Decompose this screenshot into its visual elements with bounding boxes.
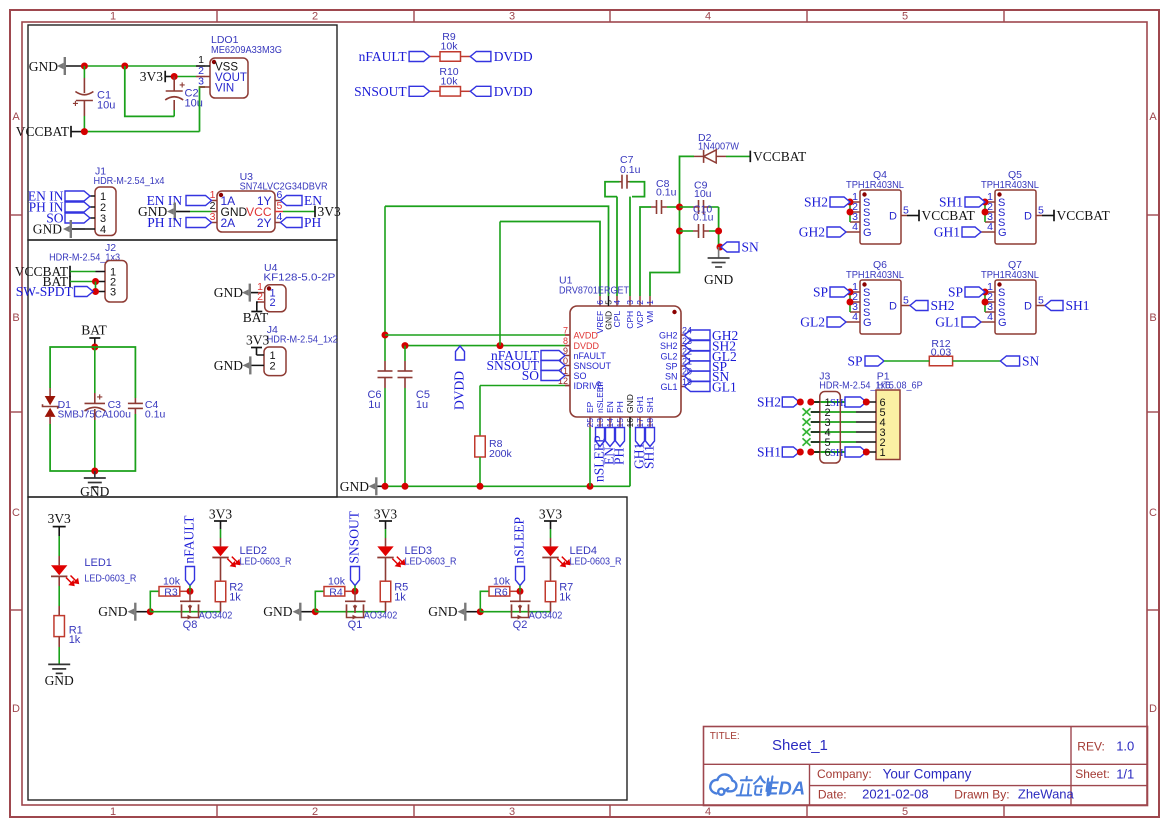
svg-text:1u: 1u bbox=[368, 399, 380, 411]
svg-text:13: 13 bbox=[595, 418, 605, 428]
svg-text:Sheet_1: Sheet_1 bbox=[772, 737, 828, 754]
svg-text:SH2: SH2 bbox=[931, 298, 955, 313]
svg-text:PH IN: PH IN bbox=[147, 215, 182, 230]
wire GND to LDO pin1 bbox=[66, 65, 84, 67]
resistor R6 bbox=[480, 591, 489, 611]
svg-text:GND: GND bbox=[704, 272, 733, 287]
wire AVDD to U1 pin7 bbox=[385, 334, 565, 336]
regulator LDO1 body bbox=[210, 58, 248, 98]
port PH IN at U3 pin3 bbox=[186, 218, 212, 228]
svg-text:KF128-5.0-2P: KF128-5.0-2P bbox=[263, 272, 335, 284]
svg-text:25: 25 bbox=[585, 418, 595, 428]
Q5 pin stubs bbox=[985, 201, 995, 203]
terminal P1 body bbox=[876, 390, 900, 460]
svg-text:+: + bbox=[72, 99, 78, 110]
svg-text:REV:: REV: bbox=[1077, 740, 1105, 754]
Q6 drain connection bbox=[901, 305, 910, 307]
net flag GND at U4 pin1 bbox=[249, 284, 251, 302]
svg-text:GH2: GH2 bbox=[659, 331, 678, 341]
connector J3 body bbox=[820, 392, 841, 464]
port SH2 at Q4 pin1 bbox=[830, 197, 850, 207]
svg-text:5: 5 bbox=[1038, 295, 1044, 307]
svg-text:GND: GND bbox=[98, 604, 127, 619]
resistor R8 bbox=[475, 436, 486, 457]
svg-text:G: G bbox=[998, 317, 1007, 329]
junction C10 left bbox=[676, 228, 683, 235]
frame row ticks right bbox=[1147, 214, 1159, 216]
svg-text:D: D bbox=[1149, 703, 1157, 715]
svg-text:nFAULT: nFAULT bbox=[182, 515, 197, 564]
svg-text:7: 7 bbox=[563, 326, 568, 336]
svg-text:SNSOUT: SNSOUT bbox=[574, 361, 612, 371]
port GH1 below U1 bbox=[636, 428, 645, 447]
svg-text:4: 4 bbox=[987, 221, 993, 233]
port SO at U1 pin11 bbox=[541, 371, 565, 381]
wire VREF down to DVDD bbox=[499, 222, 501, 346]
svg-text:SH2: SH2 bbox=[757, 395, 781, 410]
port DVDD at R10 bbox=[470, 86, 491, 96]
svg-text:10u: 10u bbox=[97, 100, 115, 112]
wire D2 to VCCBAT bbox=[726, 155, 750, 157]
capacitor C4 bbox=[134, 398, 136, 403]
ports at U1 right pins bbox=[685, 330, 711, 340]
svg-text:2: 2 bbox=[270, 360, 276, 372]
junction GND Q2 bbox=[477, 608, 484, 615]
transistor Q7 body bbox=[995, 280, 1036, 334]
section box power supply bbox=[28, 25, 337, 240]
svg-text:R4: R4 bbox=[329, 586, 343, 598]
svg-text:D: D bbox=[889, 301, 897, 313]
svg-text:1/1: 1/1 bbox=[1116, 767, 1134, 782]
port PH IN at J1 pin2 bbox=[65, 202, 90, 212]
ground symbol below R1 bbox=[48, 663, 70, 665]
port DVDD at R9 bbox=[470, 52, 491, 62]
net flag GND at J1 pin4 bbox=[70, 220, 72, 238]
svg-text:5: 5 bbox=[903, 295, 909, 307]
svg-text:23: 23 bbox=[682, 336, 692, 346]
wire SN vertical bbox=[718, 207, 720, 247]
wire IDRIVE to R8 bbox=[480, 385, 565, 387]
svg-text:2: 2 bbox=[270, 297, 276, 309]
svg-text:nSLEEP: nSLEEP bbox=[595, 381, 605, 413]
junction gate Q1 bbox=[352, 588, 359, 595]
svg-text:GL1: GL1 bbox=[712, 380, 737, 395]
svg-text:2Y: 2Y bbox=[257, 216, 272, 230]
resistor R10 bbox=[440, 87, 461, 97]
svg-text:LED-0603_R: LED-0603_R bbox=[570, 556, 622, 568]
svg-text:1.0: 1.0 bbox=[1116, 739, 1134, 754]
svg-text:3V3: 3V3 bbox=[374, 506, 397, 521]
svg-text:DVDD: DVDD bbox=[494, 49, 533, 64]
svg-text:SP: SP bbox=[665, 362, 677, 372]
svg-text:ME6209A33M3G: ME6209A33M3G bbox=[211, 44, 282, 56]
frame row ticks left bbox=[10, 214, 22, 216]
svg-text:SNSOUT: SNSOUT bbox=[347, 510, 362, 563]
svg-text:GL2: GL2 bbox=[660, 352, 677, 362]
svg-text:GND: GND bbox=[263, 604, 292, 619]
junction gate Q2 bbox=[517, 588, 524, 595]
svg-text:GL1: GL1 bbox=[660, 382, 677, 392]
svg-text:10u: 10u bbox=[694, 188, 712, 200]
svg-text:LED-0603_R: LED-0603_R bbox=[84, 573, 136, 585]
Q4 drain connection bbox=[901, 215, 907, 217]
svg-text:A: A bbox=[1149, 111, 1157, 123]
capacitor C6 bbox=[384, 361, 386, 371]
capacitor C2 bbox=[173, 77, 175, 91]
capacitor C3 bbox=[94, 347, 96, 393]
svg-text:15: 15 bbox=[615, 418, 625, 428]
wire GND down to C2 bottom bbox=[125, 66, 174, 116]
svg-text:SH2: SH2 bbox=[660, 341, 678, 351]
svg-text:SH1: SH1 bbox=[642, 445, 657, 469]
port SW-SPDT at J2 pin3 bbox=[75, 287, 94, 297]
Q4 pin stubs bbox=[850, 201, 860, 203]
net flag VCCBAT at D2 bbox=[749, 151, 751, 163]
svg-text:SN: SN bbox=[665, 372, 678, 382]
net flag GND at bottom rail bbox=[375, 477, 377, 495]
U1 right pin stubs bbox=[681, 334, 685, 336]
junction SN node bbox=[717, 244, 724, 251]
net flag GND at Q8 bbox=[134, 603, 136, 621]
svg-text:PH: PH bbox=[304, 215, 322, 230]
wire 3V3 to LDO pin2 bbox=[165, 76, 174, 78]
svg-text:1: 1 bbox=[645, 300, 655, 305]
junction J2 pin2 bbox=[92, 278, 99, 285]
junction DVDD-VREF bbox=[497, 342, 504, 349]
svg-text:SH1: SH1 bbox=[757, 445, 781, 460]
svg-text:GND: GND bbox=[214, 358, 243, 373]
svg-text:10k: 10k bbox=[441, 41, 459, 53]
port EN IN at J1 pin1 bbox=[65, 191, 90, 201]
svg-text:3V3: 3V3 bbox=[209, 506, 232, 521]
svg-text:4: 4 bbox=[852, 311, 858, 323]
svg-text:VCCBAT: VCCBAT bbox=[922, 208, 976, 223]
port EN at U3 pin6 bbox=[281, 196, 303, 206]
svg-text:5: 5 bbox=[902, 806, 908, 818]
svg-text:2: 2 bbox=[312, 806, 318, 818]
svg-text:Drawn By:: Drawn By: bbox=[954, 788, 1009, 802]
junction GND Q8 bbox=[147, 608, 154, 615]
buffer U3 body bbox=[217, 191, 275, 232]
junction at C2 top bbox=[171, 73, 178, 80]
resistor R4 bbox=[315, 591, 324, 611]
svg-text:D: D bbox=[889, 211, 897, 223]
Q6 pin stubs bbox=[850, 291, 860, 293]
svg-text:SO: SO bbox=[574, 371, 587, 381]
svg-text:14: 14 bbox=[605, 418, 615, 428]
svg-text:SNSOUT: SNSOUT bbox=[354, 84, 407, 99]
svg-text:8: 8 bbox=[563, 336, 568, 346]
junction C5 at rail bbox=[402, 483, 409, 490]
svg-text:VCCBAT: VCCBAT bbox=[753, 149, 807, 164]
svg-text:Company:: Company: bbox=[817, 767, 872, 781]
svg-text:R3: R3 bbox=[164, 586, 178, 598]
svg-text:Sheet:: Sheet: bbox=[1075, 767, 1110, 781]
junction C10 right bbox=[715, 228, 722, 235]
net flag 3V3 at U3 pin5 bbox=[283, 211, 315, 213]
svg-text:AO3402: AO3402 bbox=[364, 610, 398, 622]
svg-text:VCP: VCP bbox=[635, 310, 645, 328]
svg-text:4: 4 bbox=[705, 806, 711, 818]
terminal U4 body bbox=[265, 285, 286, 312]
wire AVDD-C6 top run bbox=[385, 206, 609, 296]
svg-text:GL1: GL1 bbox=[935, 315, 960, 330]
port SO at J1 pin3 bbox=[65, 213, 90, 223]
transistor Q4 body bbox=[860, 190, 901, 244]
svg-text:3V3: 3V3 bbox=[246, 333, 269, 348]
port GL1 at Q7 pin4 bbox=[962, 317, 981, 327]
resistor R1 bbox=[54, 616, 64, 637]
svg-text:C: C bbox=[12, 507, 20, 519]
LED LED1 bbox=[58, 527, 60, 536]
logo text 立创EDA bbox=[737, 776, 773, 795]
wire EP to rail bbox=[589, 428, 591, 487]
svg-text:EP: EP bbox=[585, 401, 595, 413]
svg-text:D: D bbox=[1024, 301, 1032, 313]
transistor Q6 body bbox=[860, 280, 901, 334]
wire CPL riser bbox=[616, 197, 618, 296]
Q5 source tie wire bbox=[984, 202, 986, 222]
net flag GND at Q2 bbox=[464, 603, 466, 621]
svg-text:24: 24 bbox=[682, 326, 692, 336]
TVS diode D1 bbox=[49, 388, 51, 396]
resistor R5 bbox=[380, 581, 391, 602]
resistor R3 bbox=[150, 591, 159, 611]
junction DVDD left bbox=[402, 342, 409, 349]
port SP at R12 bbox=[865, 356, 884, 366]
svg-text:SP: SP bbox=[813, 285, 828, 300]
logo LCEDA cloud bbox=[710, 774, 736, 794]
junction J2 pin3 bbox=[92, 288, 99, 295]
J1 pin stubs bbox=[85, 195, 95, 197]
port SH1 below U1 bbox=[646, 428, 655, 447]
svg-text:DVDD: DVDD bbox=[452, 371, 467, 410]
svg-text:SO: SO bbox=[522, 368, 540, 383]
svg-text:3: 3 bbox=[509, 806, 515, 818]
svg-text:GND: GND bbox=[214, 285, 243, 300]
svg-text:C: C bbox=[1149, 507, 1157, 519]
wire SP to R12 bbox=[884, 360, 929, 362]
port nSLEEP below U1 bbox=[596, 428, 605, 447]
LED LED2 bbox=[220, 521, 222, 529]
svg-text:AO3402: AO3402 bbox=[529, 610, 563, 622]
svg-text:GND: GND bbox=[29, 59, 58, 74]
title block dividers bbox=[1070, 727, 1072, 806]
svg-text:GND: GND bbox=[45, 673, 74, 688]
U1 left pin stubs bbox=[565, 334, 570, 336]
port nFAULT at R9 bbox=[409, 52, 430, 62]
U1 bottom pin stubs bbox=[589, 417, 591, 428]
port GH1 at Q5 pin4 bbox=[962, 227, 981, 237]
svg-text:EN: EN bbox=[605, 401, 615, 413]
svg-text:Q1: Q1 bbox=[348, 619, 363, 631]
port nFAULT vertical at Q8 bbox=[186, 567, 195, 586]
svg-text:GL2: GL2 bbox=[800, 315, 825, 330]
U3 right pin stubs bbox=[275, 200, 281, 202]
svg-text:4: 4 bbox=[852, 221, 858, 233]
svg-text:GH2: GH2 bbox=[799, 225, 825, 240]
J2 pin stubs bbox=[96, 271, 106, 273]
port EN IN at U3 pin1 bbox=[186, 196, 212, 206]
port PH below U1 bbox=[616, 428, 625, 447]
svg-text:PH: PH bbox=[615, 401, 625, 413]
svg-text:GND: GND bbox=[80, 484, 109, 499]
transistor Q5 body bbox=[995, 190, 1036, 244]
wire rail up to U1 GND pin bbox=[629, 427, 631, 486]
svg-text:AO3402: AO3402 bbox=[199, 610, 233, 622]
resistor R9 bbox=[440, 52, 461, 62]
junction gate Q8 bbox=[187, 588, 194, 595]
title block border bbox=[704, 727, 1148, 806]
svg-text:BAT: BAT bbox=[81, 323, 107, 338]
svg-text:19: 19 bbox=[682, 377, 692, 387]
svg-text:20: 20 bbox=[682, 367, 692, 377]
svg-text:0.1u: 0.1u bbox=[693, 212, 714, 224]
svg-text:21: 21 bbox=[682, 357, 692, 367]
junction BAT at loop top bbox=[91, 344, 98, 351]
net flag VCCBAT at J2 pin1 bbox=[69, 266, 71, 278]
svg-text:1: 1 bbox=[110, 806, 116, 818]
svg-text:1k: 1k bbox=[559, 592, 571, 604]
svg-text:SMBJ75CA: SMBJ75CA bbox=[58, 409, 109, 421]
wire R12 to SN bbox=[953, 360, 1001, 362]
Q4 source tie wire bbox=[849, 202, 851, 222]
svg-text:1: 1 bbox=[880, 447, 886, 459]
ground symbol below SN bbox=[718, 247, 720, 258]
svg-text:ZheWana: ZheWana bbox=[1018, 787, 1075, 802]
svg-text:VM: VM bbox=[645, 311, 655, 324]
junction at C1 bottom bbox=[81, 128, 88, 135]
svg-text:GND: GND bbox=[33, 222, 62, 237]
svg-text:3V3: 3V3 bbox=[539, 506, 562, 521]
junction R8 at rail bbox=[477, 483, 484, 490]
no-connect marks on J3 pins 2-5 bbox=[803, 408, 811, 415]
wire GND rail bbox=[378, 485, 383, 487]
svg-text:nFAULT: nFAULT bbox=[574, 351, 607, 361]
port GL2 at Q6 pin4 bbox=[827, 317, 846, 327]
net flag BAT at J2 pin2 bbox=[69, 276, 71, 288]
svg-text:4: 4 bbox=[705, 11, 711, 23]
U3 left pin stubs bbox=[212, 200, 218, 202]
section box LED indicators bbox=[28, 497, 627, 800]
svg-text:TITLE:: TITLE: bbox=[710, 731, 740, 742]
svg-text:G: G bbox=[863, 227, 872, 239]
wire GND rail Q1 bbox=[315, 611, 385, 613]
port SNSOUT at U1 pin10 bbox=[541, 361, 565, 371]
section box connectors bbox=[28, 240, 337, 497]
svg-text:10k: 10k bbox=[441, 75, 459, 87]
resistor R7 bbox=[545, 581, 556, 602]
svg-text:2: 2 bbox=[312, 11, 318, 23]
svg-text:VIN: VIN bbox=[215, 83, 234, 95]
port SNSOUT at R10 bbox=[409, 86, 430, 96]
svg-text:GH1: GH1 bbox=[635, 395, 645, 413]
driver U1 body bbox=[570, 306, 681, 417]
junction at GND branch to C2 bbox=[121, 63, 128, 70]
junction C8-C9 node bbox=[676, 204, 683, 211]
svg-text:18: 18 bbox=[645, 418, 655, 428]
svg-text:3: 3 bbox=[198, 76, 204, 88]
svg-text:17: 17 bbox=[635, 418, 645, 428]
transistor Q1 bbox=[354, 591, 356, 601]
svg-text:0.1u: 0.1u bbox=[656, 187, 677, 199]
transistor Q8 bbox=[189, 591, 191, 601]
svg-text:Your Company: Your Company bbox=[883, 767, 972, 782]
svg-text:1: 1 bbox=[110, 11, 116, 23]
port SNSOUT vertical at Q1 bbox=[351, 567, 360, 586]
svg-text:5: 5 bbox=[902, 11, 908, 23]
Q5 drain connection bbox=[1036, 215, 1042, 217]
svg-text:3: 3 bbox=[509, 11, 515, 23]
net flag 3V3 at LDO bbox=[164, 71, 166, 83]
port nSLEEP vertical at Q2 bbox=[516, 567, 525, 586]
row wires J3 to P1 bbox=[811, 401, 856, 403]
connector J4 body bbox=[264, 347, 286, 376]
Q7 pin stubs bbox=[985, 291, 995, 293]
junction GND Q1 bbox=[312, 608, 319, 615]
net flag VCCBAT at LDO bbox=[70, 126, 72, 138]
wire J2 pin2 to pin3 bbox=[95, 282, 97, 292]
LDO1 pin stubs bbox=[205, 65, 210, 67]
port nFAULT at U1 pin9 bbox=[541, 351, 565, 361]
transistor Q2 bbox=[519, 591, 521, 601]
svg-text:D: D bbox=[1024, 211, 1032, 223]
U4 pin stubs bbox=[258, 292, 265, 294]
net flag BAT at U4 pin2 bbox=[257, 302, 258, 312]
svg-text:VCCBAT: VCCBAT bbox=[1057, 208, 1111, 223]
svg-text:G: G bbox=[863, 317, 872, 329]
svg-text:0.1u: 0.1u bbox=[145, 409, 166, 421]
svg-text:2021-02-08: 2021-02-08 bbox=[862, 787, 929, 802]
net flag GND at LDO bbox=[64, 57, 66, 75]
port EN below U1 bbox=[606, 428, 615, 447]
wire VM riser bbox=[650, 156, 694, 296]
frame column ticks bottom bbox=[216, 805, 218, 817]
svg-text:nSLEEP: nSLEEP bbox=[512, 517, 527, 564]
svg-text:nFAULT: nFAULT bbox=[359, 49, 408, 64]
LED LED2 bbox=[385, 521, 387, 529]
resistor R2 bbox=[215, 581, 226, 602]
svg-text:2: 2 bbox=[635, 300, 645, 305]
net flag GND at Q1 bbox=[299, 603, 301, 621]
ground symbol below battery loop bbox=[94, 471, 96, 478]
svg-text:SW-SPDT: SW-SPDT bbox=[16, 284, 74, 299]
junction AVDD tap bbox=[382, 332, 389, 339]
wire GND rail Q8 bbox=[150, 611, 220, 613]
svg-text:GND: GND bbox=[340, 479, 369, 494]
svg-text:SH2: SH2 bbox=[804, 195, 828, 210]
capacitor C5 bbox=[404, 346, 406, 361]
port SP at Q7 pin1 bbox=[965, 287, 985, 297]
wire VCCBAT to LDO pin3 bbox=[71, 131, 84, 133]
svg-text:DVDD: DVDD bbox=[494, 84, 533, 99]
svg-text:SH1: SH1 bbox=[1066, 298, 1090, 313]
connector J1 body bbox=[95, 187, 116, 236]
svg-text:GH1: GH1 bbox=[934, 225, 960, 240]
svg-text:1k: 1k bbox=[394, 592, 406, 604]
svg-text:3: 3 bbox=[110, 287, 116, 299]
svg-text:EDA: EDA bbox=[766, 778, 805, 799]
connector J2 body bbox=[105, 261, 127, 303]
junction C6 at rail bbox=[382, 483, 389, 490]
svg-text:LED-0603_R: LED-0603_R bbox=[405, 556, 457, 568]
junction EP at rail bbox=[587, 483, 594, 490]
wire VCP riser bbox=[640, 207, 651, 296]
svg-text:DVDD: DVDD bbox=[574, 341, 600, 351]
port SN at R12 bbox=[1000, 356, 1019, 366]
wire C6 vertical bbox=[384, 206, 386, 361]
svg-text:PH: PH bbox=[612, 447, 627, 465]
